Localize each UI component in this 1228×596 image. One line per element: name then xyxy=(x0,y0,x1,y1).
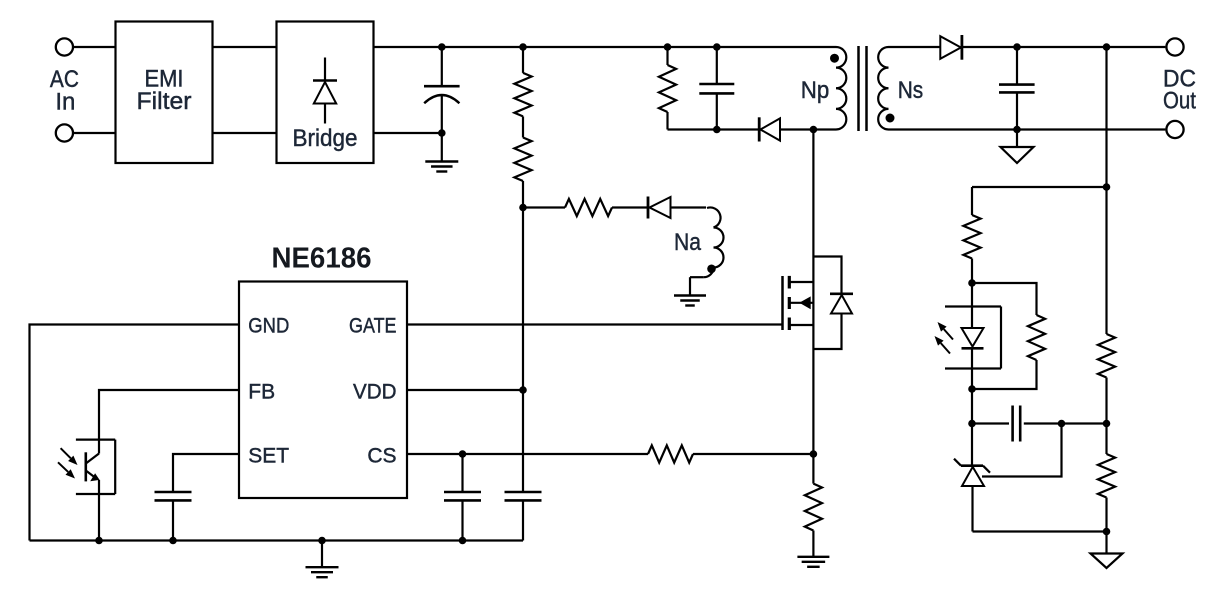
polarity dot Ns xyxy=(886,114,895,123)
resistor snubber R4 xyxy=(659,47,676,130)
pin label FB xyxy=(248,380,275,403)
wire CS pin xyxy=(407,453,648,455)
junction DC bus at feedback branch xyxy=(1103,43,1111,51)
capacitor VDD C5 xyxy=(505,390,542,541)
optocoupler LED box xyxy=(945,307,1001,369)
junction comp cap left xyxy=(968,420,976,428)
wire snubber bottom rail xyxy=(668,128,760,130)
light arrows phototransistor xyxy=(58,448,78,478)
label DC Out xyxy=(1163,66,1196,115)
wire startup node to R3 xyxy=(523,206,565,208)
label Np xyxy=(801,77,830,104)
MOSFET Q1 body diode xyxy=(813,257,853,350)
junction feedback top xyxy=(1103,183,1111,191)
svg-text:Na: Na xyxy=(674,229,702,256)
diode aux D2 xyxy=(648,197,706,219)
IC NE6186 U1 xyxy=(239,243,407,499)
junction output cap bottom xyxy=(1013,126,1021,134)
terminal DC output bottom xyxy=(1166,121,1183,138)
junction HV bus at bulk cap xyxy=(438,43,446,51)
pin label GATE xyxy=(349,314,397,337)
MOSFET Q1 source stub xyxy=(790,324,813,326)
svg-text:VDD: VDD xyxy=(353,380,397,403)
svg-text:Ns: Ns xyxy=(898,77,924,104)
junction opto emitter ground xyxy=(95,537,103,545)
wire primary bottom xyxy=(813,128,836,130)
label Ns xyxy=(898,77,924,104)
pin label VDD xyxy=(353,380,397,403)
resistor LED parallel R6 xyxy=(972,283,1045,389)
svg-text:Out: Out xyxy=(1163,88,1196,115)
wire secondary bottom rail xyxy=(889,128,1166,130)
wire GATE pin to MOSFET xyxy=(407,323,783,325)
junction HV bus at startup resistor xyxy=(519,43,527,51)
MOSFET Q1 body arrow xyxy=(790,296,813,309)
junction sense node xyxy=(810,450,818,458)
wire SET pin to cap xyxy=(173,454,239,492)
terminal DC output top xyxy=(1166,38,1183,55)
diode bridge symbol xyxy=(313,58,337,124)
transformer core xyxy=(859,46,867,131)
resistor startup R1 xyxy=(514,47,531,138)
wire EMI to bridge bottom xyxy=(213,132,277,134)
label Na xyxy=(674,229,702,256)
light arrows LED xyxy=(935,322,954,354)
junction regulator ground xyxy=(1103,528,1111,536)
junction CS cap node xyxy=(459,450,467,458)
wire AC top to EMI filter xyxy=(74,46,116,48)
wire FB pin to opto xyxy=(99,390,239,454)
MOSFET Q1 channel xyxy=(788,276,791,330)
transformer primary winding Np xyxy=(836,47,846,130)
optocoupler LED U2B xyxy=(962,283,984,389)
wire VDD pin xyxy=(407,389,523,391)
junction SET cap ground xyxy=(169,537,177,545)
capacitor compensation C7 xyxy=(972,406,1107,442)
MOSFET Q1 drain stub xyxy=(790,281,813,283)
resistor divider upper R7 xyxy=(1098,187,1115,424)
junction ground rail center xyxy=(318,537,326,545)
polarity dot Np xyxy=(830,54,839,63)
junction divider midpoint xyxy=(1103,420,1111,428)
junction CS cap ground xyxy=(459,537,467,545)
wire ground rail bottom xyxy=(30,539,524,541)
wire secondary top to D3 xyxy=(889,46,941,48)
resistor startup R2 xyxy=(514,138,531,208)
terminal AC input bottom xyxy=(56,124,73,141)
capacitor bulk C1 xyxy=(424,47,460,133)
wire HV bus top rail xyxy=(374,46,837,48)
optocoupler phototransistor box xyxy=(76,440,115,494)
transformer secondary winding Ns xyxy=(878,47,888,130)
ground secondary xyxy=(1001,130,1034,164)
svg-text:GND: GND xyxy=(248,314,289,337)
junction comp cap right xyxy=(1058,420,1066,428)
ground Na xyxy=(674,277,706,305)
svg-text:Bridge: Bridge xyxy=(293,125,358,152)
svg-text:Np: Np xyxy=(801,77,830,104)
optocoupler phototransistor U2A xyxy=(86,452,100,540)
pin label SET xyxy=(248,444,289,467)
winding Na xyxy=(690,207,724,277)
ground sense xyxy=(797,531,829,567)
junction VDD node xyxy=(519,386,527,394)
junction HV bus at snubber cap xyxy=(713,43,721,51)
block bridge rectifier xyxy=(277,22,374,164)
ground IC xyxy=(306,541,339,578)
wire feedback drop xyxy=(1105,47,1107,187)
svg-text:Filter: Filter xyxy=(137,88,192,115)
resistor CS R9 xyxy=(648,445,693,462)
svg-text:SET: SET xyxy=(248,444,289,467)
capacitor SET C4 xyxy=(155,492,192,541)
polarity dot Na xyxy=(707,265,716,274)
label AC In xyxy=(50,66,79,115)
svg-text:GATE: GATE xyxy=(349,314,397,337)
junction HV bus at snubber resistor xyxy=(664,43,672,51)
wire EMI to bridge top xyxy=(213,46,277,48)
MOSFET Q1 gate bar xyxy=(781,276,784,330)
wire bridge bottom to bulk cap xyxy=(374,132,442,134)
wire R9 to sense node xyxy=(693,453,813,455)
resistor divider lower R8 xyxy=(1098,424,1115,532)
ground bulk cap xyxy=(425,133,458,172)
junction snubber cap bottom xyxy=(713,126,721,134)
svg-text:In: In xyxy=(55,88,75,115)
wire AC bottom to EMI filter xyxy=(74,132,116,134)
junction opto LED anode xyxy=(968,279,976,287)
terminal AC input top xyxy=(56,38,73,55)
wire GND pin to ground rail xyxy=(30,325,240,541)
svg-text:NE6186: NE6186 xyxy=(272,243,372,275)
ground feedback divider xyxy=(1091,532,1123,569)
junction startup node xyxy=(519,204,527,212)
resistor aux R3 xyxy=(565,199,612,216)
capacitor output C3 xyxy=(999,47,1035,130)
junction primary bottom drain node xyxy=(810,126,818,134)
block EMI filter xyxy=(116,22,213,164)
diode clamp D1 xyxy=(759,117,813,141)
svg-text:FB: FB xyxy=(248,380,275,403)
pin label GND xyxy=(248,314,289,337)
capacitor CS filter C6 xyxy=(444,454,481,541)
wire VDD riser xyxy=(522,208,524,391)
capacitor snubber C2 xyxy=(699,47,734,130)
wire LED cathode to comp node xyxy=(971,389,973,424)
wire DC bus top xyxy=(962,46,1166,48)
pin label CS xyxy=(367,444,396,467)
diode output D3 xyxy=(940,35,962,60)
resistor sense R10 xyxy=(805,454,822,531)
shunt regulator Z1 xyxy=(954,424,990,532)
wire regulator ground rail xyxy=(973,530,1107,532)
wire reference tap xyxy=(982,424,1062,477)
wire feedback top link xyxy=(972,186,1107,188)
resistor feedback upper R5 xyxy=(963,187,980,283)
junction opto LED cathode xyxy=(968,385,976,393)
junction DC bus at output cap xyxy=(1013,43,1021,51)
MOSFET Q1 drain-source line xyxy=(812,130,814,455)
wire R3 to D2 xyxy=(612,206,648,208)
svg-text:CS: CS xyxy=(367,444,396,467)
junction bulk cap bottom xyxy=(438,129,446,137)
